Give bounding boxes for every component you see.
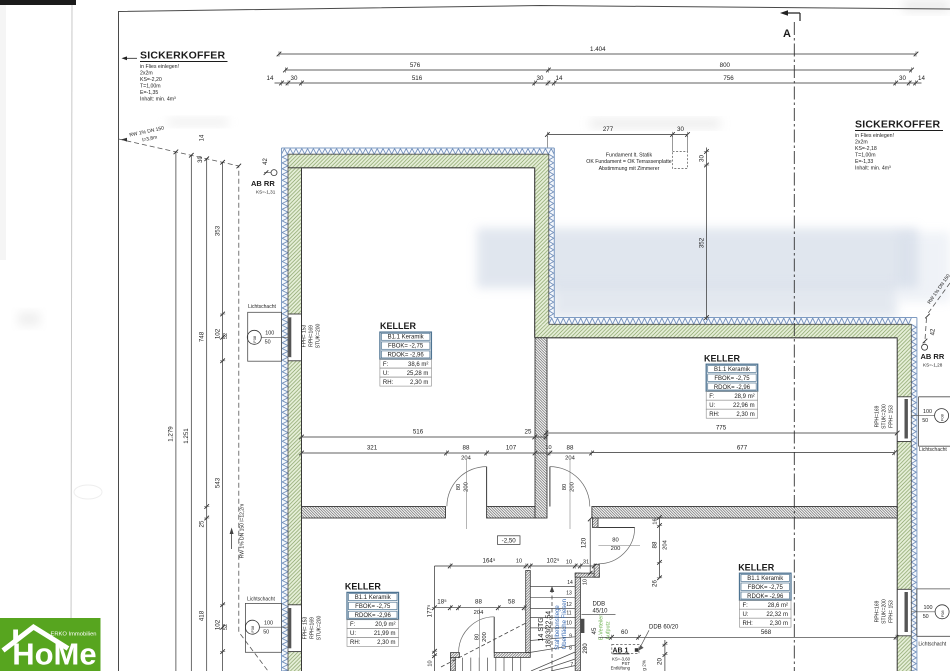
- svg-text:50: 50: [265, 340, 271, 346]
- window W2 frame: [905, 399, 908, 439]
- window W1 frame: [288, 317, 291, 358]
- svg-text:FPH= 153: FPH= 153: [303, 616, 309, 639]
- svg-text:204: 204: [474, 610, 484, 616]
- svg-text:25,28 m: 25,28 m: [407, 371, 429, 377]
- svg-text:25: 25: [525, 429, 532, 436]
- svg-text:164⁵: 164⁵: [483, 558, 496, 565]
- svg-text:Fundament lt. Statik: Fundament lt. Statik: [606, 153, 653, 159]
- svg-text:30: 30: [291, 75, 298, 82]
- svg-text:FBOK= -2,75: FBOK= -2,75: [355, 604, 391, 610]
- svg-text:14: 14: [918, 75, 925, 82]
- svg-text:756: 756: [723, 75, 734, 82]
- window W1 left wall upper: reveal lines: [288, 313, 302, 315]
- left chain line 353/102/543/102: [222, 162, 224, 671]
- svg-text:Lichtschacht: Lichtschacht: [247, 596, 275, 602]
- black corner mark top-left: [0, 0, 76, 5]
- svg-text:13: 13: [566, 591, 572, 597]
- svg-text:AB RR: AB RR: [921, 352, 945, 361]
- lower flight side line: [478, 609, 480, 671]
- exterior wall green: right wall of upper-left room: [535, 154, 549, 324]
- vertical dim 30/352: [706, 148, 708, 321]
- top dimension row 576 / 800: [285, 69, 911, 71]
- F08 circle upper-left: [247, 330, 261, 344]
- svg-text:T=1,00m: T=1,00m: [855, 152, 876, 158]
- svg-text:28,9 m²: 28,9 m²: [734, 394, 754, 400]
- lichtschacht box lower-left: [245, 603, 281, 652]
- left chain line 1.279: [175, 152, 177, 671]
- RW dashed right side: [925, 283, 950, 343]
- wall stub above door D3: [593, 518, 599, 528]
- dim row 516/25 (left room): [302, 436, 547, 438]
- top dimension row 1.404: [279, 53, 916, 55]
- insulation outer edge lines: [282, 147, 555, 149]
- wall stub below door D3: [594, 564, 599, 577]
- svg-text:F08: F08: [250, 625, 255, 633]
- svg-text:RDOK= -2,96: RDOK= -2,96: [714, 385, 751, 391]
- svg-text:RW 1% DN 150 l=12,2m: RW 1% DN 150 l=12,2m: [240, 504, 246, 559]
- dim row 60/568: [599, 636, 897, 638]
- svg-text:RPH=169: RPH=169: [875, 600, 881, 622]
- svg-text:KELLER: KELLER: [380, 321, 417, 331]
- dim row 677: [592, 452, 895, 454]
- svg-text:516: 516: [412, 75, 423, 82]
- lichtschacht box upper-left: [248, 312, 282, 361]
- F08 circle lower-right: [935, 605, 949, 619]
- stair walking line dashed: [551, 590, 553, 671]
- svg-text:FPH= 153: FPH= 153: [889, 600, 895, 623]
- svg-text:Inhalt: min. 4m³: Inhalt: min. 4m³: [140, 96, 176, 102]
- lichtschacht box lower-right: [917, 588, 950, 590]
- svg-text:800: 800: [720, 62, 731, 69]
- svg-text:RH:: RH:: [743, 621, 754, 627]
- F08 circle lower-left: [245, 620, 259, 634]
- svg-text:FBOK= -2,75: FBOK= -2,75: [714, 376, 750, 382]
- svg-text:200: 200: [611, 546, 621, 552]
- svg-text:102: 102: [214, 619, 221, 630]
- svg-text:200: 200: [482, 632, 488, 642]
- stair wall right 10cm: [575, 573, 580, 671]
- svg-text:21,99 m: 21,99 m: [374, 631, 396, 637]
- dim row 775 (right room): [546, 432, 897, 434]
- svg-text:E-Verteiler: E-Verteiler: [599, 615, 605, 640]
- svg-text:Abstimmung mit Zimmerer: Abstimmung mit Zimmerer: [599, 166, 660, 172]
- svg-text:80: 80: [612, 538, 618, 544]
- insulation right exterior wall: [911, 324, 916, 671]
- interior wall 25cm segment B (between doors D1 and D2): [487, 507, 535, 519]
- svg-text:KS=-2,18: KS=-2,18: [855, 146, 877, 152]
- svg-text:775: 775: [716, 425, 727, 432]
- svg-text:42: 42: [931, 328, 937, 335]
- svg-text:RPH=169: RPH=169: [875, 405, 881, 427]
- svg-text:10: 10: [427, 660, 433, 666]
- svg-text:Aufputz: Aufputz: [606, 621, 612, 640]
- dim row 321/88-204/107/10/88-204: [302, 452, 550, 454]
- window W3 frame: [905, 592, 908, 632]
- svg-text:1.251: 1.251: [183, 428, 190, 444]
- bottom wall right piece: [494, 653, 530, 658]
- scan wash terrace area: [477, 228, 918, 288]
- svg-text:OK Fundament = OK Terrassenpla: OK Fundament = OK Terrassenplatte: [586, 159, 672, 165]
- svg-text:Lichtschacht: Lichtschacht: [248, 304, 276, 310]
- svg-text:58: 58: [508, 598, 515, 605]
- svg-text:FPH= 153: FPH= 153: [889, 405, 895, 428]
- stair wall left 10cm: [526, 571, 531, 653]
- svg-text:88: 88: [463, 445, 470, 452]
- insulation inner boundary lines: [288, 153, 549, 155]
- svg-text:STUK=200: STUK=200: [317, 615, 323, 640]
- svg-text:14 STG: 14 STG: [538, 617, 545, 641]
- svg-text:KELLER: KELLER: [704, 354, 741, 364]
- svg-text:80: 80: [562, 484, 568, 490]
- vertical dim chain 16/88-204/26 right of D3: [659, 517, 661, 577]
- HoMe logo: [0, 618, 101, 671]
- svg-text:80: 80: [456, 484, 462, 490]
- insulation right wall of upper-left room: [549, 154, 554, 324]
- svg-text:B1.1 Keramik: B1.1 Keramik: [747, 576, 784, 582]
- svg-text:38,6 m²: 38,6 m²: [408, 362, 428, 368]
- svg-text:STUK=200: STUK=200: [316, 323, 322, 348]
- svg-text:STUK=200: STUK=200: [882, 599, 888, 624]
- svg-text:FBOK= -2,75: FBOK= -2,75: [748, 585, 784, 591]
- E-Verteiler box: [581, 619, 585, 633]
- svg-text:B1.1 Keramik: B1.1 Keramik: [388, 335, 425, 341]
- vertical dim 20: [664, 640, 666, 671]
- svg-text:280: 280: [582, 643, 589, 654]
- svg-text:748: 748: [199, 331, 206, 342]
- svg-text:14: 14: [556, 75, 563, 82]
- niche bottom wall block: [575, 573, 599, 577]
- svg-text:2,30 m: 2,30 m: [736, 412, 754, 418]
- svg-text:100: 100: [923, 409, 932, 415]
- svg-text:50: 50: [263, 630, 269, 636]
- svg-text:107: 107: [506, 445, 517, 452]
- svg-text:88: 88: [567, 445, 574, 452]
- svg-text:FPH= 153: FPH= 153: [302, 324, 308, 347]
- svg-text:Inhalt: min. 4m³: Inhalt: min. 4m³: [855, 165, 891, 171]
- svg-text:F08: F08: [939, 413, 944, 421]
- svg-text:U:: U:: [709, 403, 715, 409]
- svg-text:A: A: [783, 28, 791, 40]
- svg-text:677: 677: [737, 444, 748, 451]
- svg-text:22,32 m: 22,32 m: [766, 612, 788, 618]
- svg-text:2x2m: 2x2m: [140, 70, 153, 76]
- bottom wall left piece: [451, 653, 460, 658]
- svg-text:F:: F:: [350, 622, 356, 628]
- stair dim row 164.5/10/102.5/10/31: [435, 565, 595, 567]
- door D3 center line: [598, 545, 640, 547]
- svg-text:U:: U:: [383, 371, 389, 377]
- svg-text:KS=-1,28: KS=-1,28: [923, 363, 943, 368]
- svg-text:KS=-1,31: KS=-1,31: [256, 190, 276, 195]
- left chain line 748/25/418: [206, 159, 208, 671]
- svg-text:KELLER: KELLER: [738, 563, 775, 573]
- svg-text:RDOK= -2,96: RDOK= -2,96: [355, 613, 392, 619]
- svg-text:30: 30: [698, 155, 705, 162]
- svg-text:9: 9: [569, 633, 572, 639]
- exterior wall green: right wall (segments around windows): [897, 324, 911, 397]
- svg-text:AB RR: AB RR: [251, 179, 275, 188]
- wall inner face lines upper-left room: [302, 167, 535, 169]
- stair treads straight: [530, 586, 575, 588]
- door D4 leaf: [493, 617, 495, 653]
- svg-text:SICKERKOFFER: SICKERKOFFER: [855, 119, 940, 131]
- svg-text:KS=-2,20: KS=-2,20: [140, 77, 162, 83]
- svg-text:321: 321: [367, 445, 378, 452]
- svg-text:2x2m: 2x2m: [855, 139, 868, 145]
- svg-text:200: 200: [570, 482, 576, 492]
- section line A: [793, 22, 795, 671]
- svg-text:U:: U:: [350, 631, 356, 637]
- svg-text:22,96 m: 22,96 m: [733, 403, 755, 409]
- interior wall 25cm segment C (right of door D2 to right wall): [592, 507, 897, 519]
- svg-text:in Flies einlegen!: in Flies einlegen!: [855, 133, 894, 139]
- svg-text:14: 14: [267, 75, 274, 82]
- svg-text:AB 1: AB 1: [613, 647, 629, 654]
- svg-text:31: 31: [583, 560, 589, 566]
- door D1 swing arc: [447, 467, 487, 507]
- svg-text:14: 14: [567, 580, 573, 586]
- window W3 right wall lower: reveal lines: [897, 588, 911, 590]
- svg-text:204: 204: [565, 456, 575, 462]
- door D4 swing arc: [459, 617, 495, 653]
- svg-text:8: 8: [569, 646, 572, 652]
- F08 circle upper-right: [935, 409, 949, 423]
- svg-text:543: 543: [214, 477, 221, 488]
- svg-text:ung 2%: ung 2%: [642, 659, 648, 671]
- svg-text:in Flies einlegen!: in Flies einlegen!: [140, 64, 179, 70]
- svg-text:RH:: RH:: [709, 412, 720, 418]
- svg-text:102: 102: [214, 328, 221, 339]
- lower walking line dashed diagonal: [441, 623, 526, 667]
- svg-text:45: 45: [591, 627, 598, 634]
- svg-text:60: 60: [621, 629, 628, 636]
- svg-text:ERKO Immobilien: ERKO Immobilien: [50, 632, 96, 638]
- svg-text:204: 204: [662, 539, 668, 549]
- svg-text:50: 50: [923, 614, 929, 620]
- svg-text:26: 26: [651, 580, 658, 587]
- svg-text:120: 120: [580, 537, 587, 548]
- svg-text:F08: F08: [940, 610, 945, 618]
- svg-text:F:: F:: [383, 362, 389, 368]
- window W2 right wall upper: reveal lines: [897, 396, 911, 398]
- exterior wall green: top wall right section: [535, 324, 912, 338]
- wall inner face lines right section: [535, 337, 898, 339]
- interior wall 25cm segment A (left room bottom, left of door D1): [302, 507, 446, 519]
- svg-text:RPH=169: RPH=169: [310, 617, 316, 639]
- svg-text:30: 30: [198, 156, 204, 163]
- svg-text:25: 25: [199, 520, 206, 527]
- svg-text:E=-1,35: E=-1,35: [140, 90, 158, 96]
- lichtschacht box upper-right: [919, 396, 950, 398]
- svg-text:F:: F:: [709, 394, 715, 400]
- svg-text:177⁵: 177⁵: [426, 604, 433, 617]
- svg-text:RDOK= -2,96: RDOK= -2,96: [388, 353, 425, 359]
- section arrow A top: [786, 13, 800, 21]
- svg-text:DDB: DDB: [593, 602, 606, 608]
- svg-text:18⁵: 18⁵: [437, 598, 447, 605]
- svg-text:80: 80: [475, 634, 481, 640]
- exterior wall green: left wall (3 segments around windows): [288, 154, 302, 314]
- insulation top wall: [282, 149, 555, 155]
- fundament dashed square: [673, 152, 688, 169]
- svg-text:RDOK= -2,96: RDOK= -2,96: [747, 594, 784, 600]
- svg-text:45/10: 45/10: [593, 608, 609, 614]
- svg-text:2,30 m: 2,30 m: [377, 640, 395, 646]
- level label -2,50: [498, 536, 521, 545]
- green band inner border left room top: [288, 167, 302, 169]
- svg-text:1.279: 1.279: [168, 426, 175, 442]
- svg-text:Lichtschacht: Lichtschacht: [918, 642, 946, 648]
- svg-text:88: 88: [651, 541, 658, 548]
- AB RR right: [922, 344, 928, 350]
- stair winder treads: [530, 637, 575, 641]
- RW dashed line top-left: [119, 139, 269, 671]
- svg-text:10: 10: [583, 579, 589, 585]
- svg-text:1.404: 1.404: [590, 46, 606, 53]
- svg-text:28,6 m²: 28,6 m²: [768, 603, 788, 609]
- insulation top wall right section: [549, 318, 912, 324]
- svg-text:2,30 m: 2,30 m: [410, 380, 428, 386]
- svg-text:-2,50: -2,50: [502, 537, 517, 544]
- door D1 leaf: [486, 467, 488, 507]
- bottom wall vertical return: [451, 657, 456, 671]
- svg-text:102⁵: 102⁵: [547, 558, 560, 565]
- title arrow left: [124, 57, 137, 59]
- left chain line 1.251: [190, 155, 192, 671]
- svg-text:HoMe: HoMe: [12, 637, 96, 671]
- door D3 leaf: [598, 527, 634, 529]
- svg-text:FBOK= -2,75: FBOK= -2,75: [388, 344, 424, 350]
- svg-text:88: 88: [475, 598, 482, 605]
- svg-text:20: 20: [657, 658, 664, 665]
- door D1 center line: [466, 459, 468, 529]
- svg-text:RH:: RH:: [350, 640, 361, 646]
- svg-text:Oberfläche Fliesen: Oberfläche Fliesen: [562, 599, 568, 649]
- svg-text:SICKERKOFFER: SICKERKOFFER: [140, 50, 225, 62]
- svg-text:10: 10: [545, 445, 551, 451]
- lower flight treads below wall: [462, 658, 464, 671]
- exterior wall green: top wall left room: [288, 154, 549, 168]
- svg-text:Stahlbetonstiege: Stahlbetonstiege: [555, 605, 561, 650]
- svg-text:F08: F08: [252, 335, 257, 343]
- insulation left wall: [282, 154, 288, 671]
- dim 277/30: [547, 134, 687, 136]
- svg-text:T=1,00m: T=1,00m: [140, 83, 161, 89]
- svg-text:DDB 60/20: DDB 60/20: [649, 625, 679, 631]
- svg-text:516: 516: [413, 429, 424, 436]
- svg-text:RPH=169: RPH=169: [309, 325, 315, 347]
- svg-text:16: 16: [652, 518, 658, 524]
- svg-text:418: 418: [199, 610, 206, 621]
- svg-text:RH:: RH:: [383, 380, 394, 386]
- paper edge shadow left: [71, 0, 72, 660]
- door D2 center line: [569, 459, 571, 529]
- svg-text:52: 52: [223, 624, 229, 630]
- AB RR left: [271, 170, 277, 176]
- ticks on RW diagonal: [174, 150, 179, 155]
- svg-text:568: 568: [761, 629, 772, 636]
- svg-text:352: 352: [698, 237, 705, 248]
- svg-text:30: 30: [677, 126, 684, 133]
- top dimension row 14/30/516/30/14/756/30/14: [275, 82, 922, 84]
- vertical dim 177.5/10: [434, 566, 436, 671]
- door D3 swing arc: [598, 528, 634, 564]
- svg-text:576: 576: [410, 62, 421, 69]
- svg-text:10: 10: [516, 559, 522, 565]
- svg-text:U:: U:: [743, 612, 749, 618]
- svg-text:Lichtschacht: Lichtschacht: [919, 447, 947, 453]
- svg-text:353: 353: [214, 225, 221, 236]
- svg-text:277: 277: [603, 126, 614, 133]
- svg-text:42: 42: [263, 158, 269, 165]
- svg-text:30: 30: [537, 75, 544, 82]
- svg-text:STUK=200: STUK=200: [882, 404, 888, 429]
- svg-text:2,30 m: 2,30 m: [770, 621, 788, 627]
- stair dim row 18.5/88-204/58: [435, 607, 525, 609]
- svg-text:20,9 m²: 20,9 m²: [375, 622, 395, 628]
- svg-text:10: 10: [566, 560, 572, 566]
- window W4 frame: [288, 608, 291, 648]
- svg-text:30: 30: [899, 75, 906, 82]
- door D2 swing arc: [550, 467, 590, 507]
- AB 1 dashed rect: [612, 644, 639, 653]
- svg-text:7: 7: [570, 662, 573, 668]
- svg-text:100: 100: [924, 605, 933, 611]
- svg-text:Entlüftung: Entlüftung: [611, 666, 631, 671]
- svg-text:100: 100: [264, 621, 273, 627]
- svg-text:100: 100: [265, 331, 274, 337]
- svg-text:KELLER: KELLER: [345, 582, 382, 592]
- svg-text:14: 14: [200, 134, 206, 141]
- svg-text:B1.1 Keramik: B1.1 Keramik: [714, 367, 751, 373]
- interior wall 25cm vertical between upper rooms: [535, 338, 547, 518]
- svg-text:E=-1,33: E=-1,33: [855, 159, 873, 165]
- window W4 left wall lower: reveal lines: [288, 604, 302, 606]
- svg-text:B1.1 Keramik: B1.1 Keramik: [355, 595, 392, 601]
- door D2 leaf: [549, 467, 551, 507]
- vertical dim 120 niche: [589, 519, 591, 573]
- RW arrow mid-left vertical: [231, 530, 233, 549]
- svg-text:50: 50: [922, 418, 928, 424]
- svg-text:52: 52: [223, 333, 229, 339]
- svg-text:18,93/22,54: 18,93/22,54: [546, 611, 553, 648]
- svg-text:F:: F:: [743, 603, 749, 609]
